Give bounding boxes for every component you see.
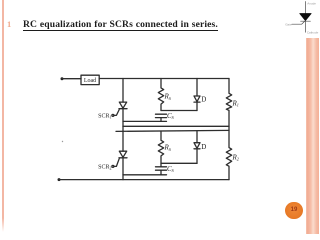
svg-text:CS: CS [167,165,175,173]
svg-text:R1: R1 [232,99,239,107]
svg-text:SCR1: SCR1 [98,114,111,120]
svg-text:RS: RS [164,144,172,152]
svg-text:Gate: Gate [285,22,292,26]
svg-text:CS: CS [167,112,175,120]
svg-text:SCR2: SCR2 [98,165,111,171]
svg-text:R2: R2 [232,153,239,161]
svg-text:Cathode: Cathode [307,31,319,35]
svg-text:Anode: Anode [307,2,316,6]
svg-text:RS: RS [164,93,172,101]
svg-text:D: D [201,96,206,104]
svg-text:Load: Load [84,78,96,84]
svg-text:D: D [201,143,206,151]
